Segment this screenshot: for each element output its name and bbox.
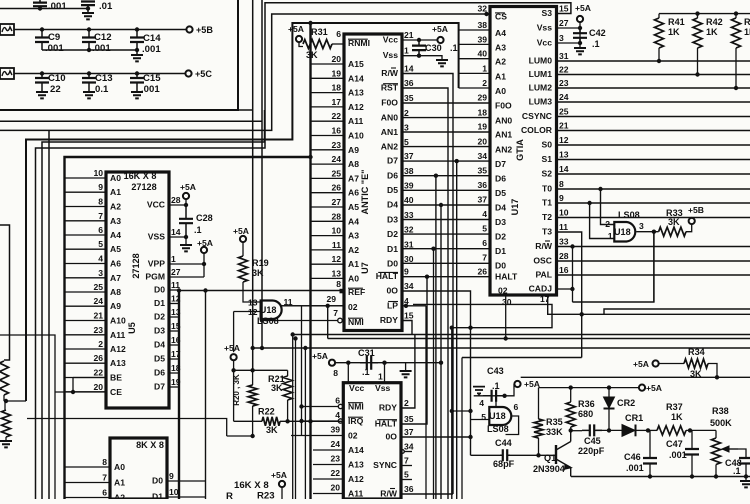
svg-text:35: 35 xyxy=(404,93,414,103)
svg-text:R42: R42 xyxy=(706,17,723,27)
svg-text:R37: R37 xyxy=(666,402,683,412)
ANTIC pin 12 A1 xyxy=(311,254,360,269)
wire under U5 xyxy=(27,419,253,437)
svg-text:A0: A0 xyxy=(495,86,506,96)
svg-text:A14: A14 xyxy=(348,445,364,455)
svg-text:AN0: AN0 xyxy=(381,112,398,122)
svg-text:24: 24 xyxy=(93,296,103,306)
svg-text:D1: D1 xyxy=(152,492,163,500)
ANTIC pin 10 A3 xyxy=(311,226,360,241)
U5 pin 3 A7 xyxy=(65,268,122,283)
svg-text:8: 8 xyxy=(559,179,564,189)
svg-text:R41: R41 xyxy=(668,17,685,27)
wire gate in12 xyxy=(234,312,261,353)
GTIA pin 1 A1 xyxy=(459,63,507,81)
8K pin 10 D1 xyxy=(152,487,206,502)
svg-text:+5A: +5A xyxy=(197,238,213,248)
wire bus w1 xyxy=(238,0,253,370)
U5 pin 19 D7 xyxy=(154,377,181,392)
svg-text:R35: R35 xyxy=(546,417,563,427)
ANTIC pin 3 AN1 xyxy=(381,122,409,137)
svg-text:3K: 3K xyxy=(266,425,278,435)
8K pin 8 A0 xyxy=(65,457,126,472)
svg-text:5: 5 xyxy=(481,412,486,422)
svg-text:4: 4 xyxy=(98,254,103,264)
GTIA pin 38 A4 xyxy=(459,20,507,38)
svg-text:+5A: +5A xyxy=(224,343,240,353)
svg-text:7: 7 xyxy=(404,456,409,466)
svg-text:T2: T2 xyxy=(542,212,552,222)
svg-text:D4: D4 xyxy=(387,200,398,210)
GTIA pin 9 T1 xyxy=(542,193,564,208)
ANTIC pin 31 D1 xyxy=(387,239,414,254)
svg-text:D5: D5 xyxy=(387,185,398,195)
svg-text:SYNC: SYNC xyxy=(373,460,397,470)
svg-text:R/W: R/W xyxy=(380,489,398,499)
ANTIC pin 23 A9 xyxy=(311,140,360,155)
wire D3 net xyxy=(402,219,490,221)
ANTIC pin 22 A11 xyxy=(311,111,364,126)
svg-text:6: 6 xyxy=(482,238,487,248)
svg-text:37: 37 xyxy=(404,427,414,437)
svg-text:RDY: RDY xyxy=(379,403,397,413)
svg-text:40: 40 xyxy=(477,49,487,59)
U5 pin 27 PGM xyxy=(145,267,204,282)
GTIA pin 25 CSYNC xyxy=(522,107,569,122)
wire +5B rail xyxy=(14,27,186,31)
svg-text:22: 22 xyxy=(331,111,341,121)
wire gate out11 to 02 xyxy=(280,305,344,307)
svg-text:Vcc: Vcc xyxy=(349,383,365,393)
svg-text:D6: D6 xyxy=(495,174,506,184)
svg-text:D0: D0 xyxy=(495,261,506,271)
CPU pin 2 RDY xyxy=(379,398,409,413)
svg-text:1K: 1K xyxy=(744,27,750,37)
svg-text:A10: A10 xyxy=(110,316,126,326)
ANTIC pin 7 O2 xyxy=(280,302,358,318)
svg-text:+5A: +5A xyxy=(271,470,287,480)
svg-text:3: 3 xyxy=(98,268,103,278)
svg-text:1: 1 xyxy=(608,231,613,241)
svg-text:19: 19 xyxy=(331,68,341,78)
GTIA pin 34 D7 xyxy=(477,151,506,169)
node +5C xyxy=(185,69,212,79)
wire Vcc to +5A xyxy=(402,38,438,42)
svg-text:D4: D4 xyxy=(154,340,165,350)
ANTIC pin 25 A7 xyxy=(311,168,360,183)
wire vertical x205 xyxy=(205,291,207,500)
ANTIC pin 18 A13 xyxy=(311,83,364,98)
wire AN1 net xyxy=(402,131,490,133)
GTIA pin 18 AN0 xyxy=(477,107,512,125)
ANTIC pin 24 A8 xyxy=(311,154,360,169)
svg-text:D2: D2 xyxy=(495,232,506,242)
GTIA pin 20 AN2 xyxy=(477,136,512,154)
svg-text:R/W: R/W xyxy=(381,68,399,78)
wire RST net xyxy=(402,88,448,499)
wire RDY net xyxy=(293,321,750,409)
ANTIC vertical labels xyxy=(360,170,370,274)
svg-text:A2: A2 xyxy=(114,493,125,500)
ground under C28 xyxy=(180,237,192,251)
svg-text:+5A: +5A xyxy=(575,3,591,13)
svg-text:R38: R38 xyxy=(712,406,729,416)
ferrite bead L1 xyxy=(0,24,14,35)
svg-text:U5: U5 xyxy=(127,322,137,334)
svg-text:28: 28 xyxy=(171,195,181,205)
AND gate U18a xyxy=(248,297,293,326)
svg-text:2N3904: 2N3904 xyxy=(533,464,566,474)
text R23 xyxy=(226,491,275,503)
svg-text:18: 18 xyxy=(477,107,487,117)
svg-text:A3: A3 xyxy=(110,216,121,226)
U5 pin 15 D3 xyxy=(154,321,181,336)
svg-text:LS08: LS08 xyxy=(257,316,279,326)
svg-text:AN2: AN2 xyxy=(495,144,512,154)
U5 title xyxy=(124,171,157,192)
svg-text:D3: D3 xyxy=(387,214,398,224)
svg-text:22: 22 xyxy=(330,468,340,478)
GTIA pin 40 A2 xyxy=(459,49,507,67)
wire S2 line xyxy=(557,173,750,175)
GTIA vertical labels xyxy=(510,139,525,216)
U5 pin 10 A0 xyxy=(65,168,122,183)
svg-text:LUM0: LUM0 xyxy=(529,56,553,66)
svg-text:R31: R31 xyxy=(311,27,328,37)
svg-text:9: 9 xyxy=(404,267,409,277)
svg-text:34: 34 xyxy=(404,442,414,452)
ground far-left xyxy=(0,441,12,447)
resistor R37 1K xyxy=(648,402,716,435)
svg-text:29: 29 xyxy=(326,294,336,304)
svg-text:35: 35 xyxy=(404,414,414,424)
svg-text:8: 8 xyxy=(336,279,341,289)
svg-text:25: 25 xyxy=(331,168,341,178)
svg-text:1: 1 xyxy=(171,254,176,264)
ground (ANTIC Vss) xyxy=(436,60,448,66)
svg-text:+5B: +5B xyxy=(688,205,704,215)
capacitor .01 with ground xyxy=(81,1,113,19)
wire T1 line xyxy=(557,202,750,204)
svg-text:A9: A9 xyxy=(348,145,359,155)
node +5A (GTIA) xyxy=(575,3,591,43)
wire GTIA Vss stub xyxy=(557,26,583,30)
svg-text:3K: 3K xyxy=(252,268,264,278)
svg-text:3K: 3K xyxy=(271,383,283,393)
U5 pin 25 A8 xyxy=(65,282,122,297)
GTIA pin 21 COLOR xyxy=(521,121,569,136)
svg-text:Vss: Vss xyxy=(375,383,391,393)
GTIA pin 17 CADJ xyxy=(529,284,553,305)
svg-text:16K X 8: 16K X 8 xyxy=(234,480,269,491)
svg-text:CR1: CR1 xyxy=(625,413,643,423)
svg-text:14: 14 xyxy=(559,164,569,174)
ANTIC pin 33 D3 xyxy=(387,210,414,225)
svg-text:.001: .001 xyxy=(48,1,67,12)
ground (C48) xyxy=(740,474,750,487)
svg-text:1: 1 xyxy=(404,46,409,56)
wire T0 to gate xyxy=(598,187,614,225)
svg-text:25: 25 xyxy=(93,282,103,292)
svg-text:40: 40 xyxy=(404,195,414,205)
svg-text:31: 31 xyxy=(404,239,414,249)
svg-text:C42: C42 xyxy=(589,28,606,38)
svg-text:D0: D0 xyxy=(152,476,163,486)
capacitor C47 .001 xyxy=(666,430,699,478)
svg-text:34: 34 xyxy=(477,151,487,161)
svg-text:AN1: AN1 xyxy=(495,130,512,140)
svg-text:T3: T3 xyxy=(542,227,552,237)
svg-text:A2: A2 xyxy=(110,202,121,212)
ground (C43) xyxy=(473,387,485,396)
svg-text:02: 02 xyxy=(498,286,508,296)
svg-text:RDY: RDY xyxy=(380,315,398,325)
svg-text:A13: A13 xyxy=(348,460,364,470)
svg-text:A12: A12 xyxy=(348,102,364,112)
GTIA pin 30 02 xyxy=(498,286,512,339)
svg-text:A13: A13 xyxy=(110,358,126,368)
svg-text:A3: A3 xyxy=(495,42,506,52)
node +5A (CPU) xyxy=(312,351,335,366)
resistor R38 500K pot xyxy=(710,406,738,479)
svg-text:PGM: PGM xyxy=(145,272,165,282)
svg-text:36: 36 xyxy=(477,180,487,190)
svg-text:39: 39 xyxy=(330,425,340,435)
svg-text:24: 24 xyxy=(559,92,569,102)
CPU pin 4 IRQ xyxy=(299,410,363,426)
GTIA pin 4 D3 xyxy=(482,209,506,227)
svg-text:29: 29 xyxy=(477,93,487,103)
U5 pin 1 VPP xyxy=(148,254,204,269)
svg-text:A7: A7 xyxy=(110,273,121,283)
ANTIC pin 29 REF xyxy=(326,279,365,304)
capacitor C10 xyxy=(35,73,66,98)
capacitor C45 220pF xyxy=(578,424,605,456)
node +5A (U5 VPP) xyxy=(197,238,213,277)
wire AN2 net xyxy=(402,146,490,148)
svg-text:LS08: LS08 xyxy=(487,424,509,434)
resistor far-left 2 xyxy=(2,410,11,441)
ANTIC pin 27 A5 xyxy=(311,197,360,212)
svg-text:Vss: Vss xyxy=(383,50,399,60)
svg-text:A6: A6 xyxy=(110,259,121,269)
wire bus w6 xyxy=(42,110,265,499)
GTIA pin 23 LUM2 xyxy=(529,78,569,93)
node +5A (R31) xyxy=(288,24,304,47)
svg-text:A10: A10 xyxy=(348,131,364,141)
CPU pin 37 0O xyxy=(386,427,414,442)
svg-text:20: 20 xyxy=(93,382,103,392)
svg-text:C43: C43 xyxy=(487,366,504,376)
svg-text:S3: S3 xyxy=(541,8,552,18)
resistor R42 1K xyxy=(693,14,723,77)
ANTIC pin 6 RNMI xyxy=(336,29,370,48)
wire osc line xyxy=(571,430,582,432)
CPU pin 24 A14 xyxy=(313,439,364,455)
svg-text:A2: A2 xyxy=(495,57,506,67)
svg-text:15: 15 xyxy=(404,311,414,321)
svg-text:39: 39 xyxy=(404,181,414,191)
resistor R35 33K xyxy=(534,388,563,456)
wire R19 to gate xyxy=(243,282,261,302)
wire +5A rail right xyxy=(521,375,750,379)
svg-text:23: 23 xyxy=(559,78,569,88)
svg-text:C12: C12 xyxy=(94,32,112,43)
svg-text:27: 27 xyxy=(171,267,181,277)
svg-text:D1: D1 xyxy=(154,298,165,308)
wire D6 net xyxy=(402,174,490,500)
wire bus w7 xyxy=(48,130,50,499)
svg-text:D2: D2 xyxy=(387,229,398,239)
CPU pin 5 xyxy=(404,470,409,480)
svg-text:16K X 8: 16K X 8 xyxy=(124,171,157,181)
svg-text:16: 16 xyxy=(331,126,341,136)
wire bus w9 xyxy=(0,225,10,360)
U5 pin 20 CE xyxy=(65,382,123,397)
CPU pin 20 A11 xyxy=(313,483,364,499)
svg-text:A5: A5 xyxy=(348,202,359,212)
U5 pin 9 A1 xyxy=(65,182,122,197)
ANTIC pin 15 RDY xyxy=(380,311,414,326)
svg-text:23: 23 xyxy=(330,454,340,464)
svg-text:A6: A6 xyxy=(348,188,359,198)
svg-text:CE: CE xyxy=(110,387,122,397)
svg-text:R23: R23 xyxy=(257,491,275,500)
wire cpu-left verticals xyxy=(291,306,308,499)
svg-text:25: 25 xyxy=(559,107,569,117)
wire D1 net xyxy=(402,247,490,500)
svg-text:.01: .01 xyxy=(99,1,113,12)
svg-text:34: 34 xyxy=(404,281,414,291)
svg-text:2: 2 xyxy=(98,339,103,349)
svg-text:11: 11 xyxy=(332,240,341,250)
svg-text:2: 2 xyxy=(482,78,487,88)
svg-text:13: 13 xyxy=(248,298,258,308)
diode CR1 xyxy=(622,413,650,436)
svg-text:A5: A5 xyxy=(110,244,121,254)
svg-text:16: 16 xyxy=(559,265,569,275)
wire T0 line xyxy=(557,188,750,190)
GTIA pin 10 T2 xyxy=(542,208,569,223)
wire bus w5 (S3 wrap) xyxy=(36,3,571,499)
ANTIC pin 38 D6 xyxy=(387,166,414,181)
svg-text:27128: 27128 xyxy=(131,253,141,278)
GTIA pin 24 LUM3 xyxy=(529,92,569,107)
ANTIC pin 4 LP xyxy=(387,296,409,311)
wire cap bottoms xyxy=(42,48,139,52)
wire LUM0 line xyxy=(557,60,750,62)
svg-text:A4: A4 xyxy=(495,28,506,38)
GTIA pin 29 F0O xyxy=(477,93,512,111)
svg-text:OSC: OSC xyxy=(533,256,552,266)
GTIA pin 3 Vcc xyxy=(537,33,564,48)
wire R/W line GTIA xyxy=(557,244,750,302)
svg-text:500K: 500K xyxy=(710,418,732,428)
U5 pin 4 A6 xyxy=(65,254,122,269)
ANTIC pin 20 A15 xyxy=(311,54,364,69)
svg-text:.1: .1 xyxy=(362,367,370,377)
svg-text:7: 7 xyxy=(482,253,487,263)
resistor R19 3K xyxy=(239,256,269,282)
svg-text:21: 21 xyxy=(93,311,103,321)
svg-text:C10: C10 xyxy=(48,73,66,84)
CPU pin 23 A13 xyxy=(313,454,364,470)
wire D4 net xyxy=(402,203,490,499)
AND gate U18c xyxy=(479,398,518,434)
wire gate4 in xyxy=(495,396,497,407)
resistor R20 3K xyxy=(232,370,257,438)
U5 pin 22 BE xyxy=(65,368,123,383)
svg-text:37: 37 xyxy=(404,151,414,161)
svg-text:8: 8 xyxy=(333,368,338,378)
svg-text:36: 36 xyxy=(404,78,414,88)
svg-text:U17: U17 xyxy=(510,199,520,216)
ANTIC pin 17 A12 xyxy=(311,97,364,112)
svg-text:2: 2 xyxy=(404,398,409,408)
wire gate5 net xyxy=(450,409,490,420)
wire U5 D-bus xyxy=(178,290,180,499)
ANTIC pin 26 A6 xyxy=(311,183,360,198)
svg-text:GTIA: GTIA xyxy=(515,139,525,161)
node +5A (R34) xyxy=(633,359,659,369)
svg-text:D6: D6 xyxy=(387,170,398,180)
wire LUM1 line xyxy=(557,74,750,76)
svg-text:T1: T1 xyxy=(542,198,552,208)
ANTIC pin 16 A10 xyxy=(311,126,364,141)
ANTIC pin 39 D5 xyxy=(387,181,414,196)
ANTIC pin 36 RST xyxy=(381,78,414,93)
svg-text:68pF: 68pF xyxy=(493,459,515,469)
wire HALT net xyxy=(401,275,490,425)
node +5A (R19) xyxy=(233,226,249,256)
resistor R41 1K xyxy=(655,14,685,64)
svg-text:D3: D3 xyxy=(154,326,165,336)
border box top-left section xyxy=(0,0,238,110)
resistor R22 3K xyxy=(234,370,344,435)
CPU pin 7 SYNC xyxy=(373,456,409,471)
svg-text:U7: U7 xyxy=(360,262,370,274)
capacitor C30 xyxy=(412,40,458,58)
svg-text:A0: A0 xyxy=(348,273,359,283)
svg-text:35: 35 xyxy=(477,166,487,176)
capacitor C13 xyxy=(82,73,113,98)
svg-text:.001: .001 xyxy=(669,450,687,460)
wire emitter rail xyxy=(571,476,750,478)
svg-text:5: 5 xyxy=(482,224,487,234)
capacitor C15 xyxy=(130,73,161,98)
capacitor C31 xyxy=(358,348,378,377)
8K pin 9 D0 xyxy=(152,471,206,486)
svg-text:32: 32 xyxy=(477,4,487,14)
U5 pin 28 VCC xyxy=(147,195,186,210)
GTIA pin 37 D4 xyxy=(477,195,506,213)
svg-text:C31: C31 xyxy=(358,348,375,358)
svg-text:C46: C46 xyxy=(624,452,641,462)
svg-text:26: 26 xyxy=(93,353,103,363)
wire S1 line xyxy=(557,159,750,161)
ANTIC pin 32 D2 xyxy=(387,225,414,240)
wire bus w3 (CS) xyxy=(0,12,489,131)
GTIA pin 6 D1 xyxy=(482,238,506,256)
GTIA pin 22 LUM1 xyxy=(529,65,569,80)
U5 pin 21 A10 xyxy=(65,311,126,326)
svg-text:D6: D6 xyxy=(154,368,165,378)
svg-text:A11: A11 xyxy=(348,489,364,499)
wire COLOR line xyxy=(557,130,750,132)
CPU pin 39 02 xyxy=(291,425,358,441)
svg-text:3: 3 xyxy=(404,122,409,132)
svg-text:3K: 3K xyxy=(668,217,680,227)
